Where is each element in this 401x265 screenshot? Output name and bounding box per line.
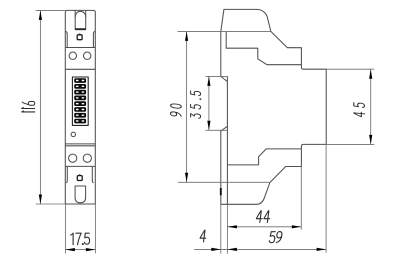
connector block J1 outline xyxy=(72,77,88,125)
arrow 90 bottom xyxy=(185,173,188,183)
dim 35.5 extension bottom xyxy=(205,129,227,131)
front view lower recess walls xyxy=(66,166,94,182)
screw S1 top xyxy=(77,34,82,40)
arrow 35.5 top xyxy=(207,76,210,86)
dim 59 extension right xyxy=(325,144,327,252)
dim 45 line xyxy=(370,69,372,144)
front view divider above bottom recess xyxy=(65,165,95,167)
label 59 xyxy=(269,232,282,243)
dim 116 line xyxy=(39,10,41,204)
arrow 116 top xyxy=(39,10,42,20)
front view upper recess walls xyxy=(65,31,95,47)
side view clip tooth tick xyxy=(220,188,222,195)
terminal hole circle top-left xyxy=(69,52,76,59)
dim 59 line xyxy=(194,248,326,250)
arrow 59 left pointing left xyxy=(227,248,237,251)
dim 17.5 extension left xyxy=(64,204,66,253)
label 4 xyxy=(200,230,207,242)
arrow 90 top xyxy=(185,31,188,41)
label 17.5 xyxy=(71,233,90,245)
dim 116 extension top xyxy=(36,9,66,11)
dim 4 extension left xyxy=(220,204,222,253)
small hole circle mid xyxy=(71,132,75,136)
arrow 17.5 right xyxy=(86,248,96,251)
label 35.5 xyxy=(191,91,201,119)
label 44 xyxy=(256,211,271,223)
arrow 45 bottom xyxy=(369,135,372,145)
arrow 45 top xyxy=(369,69,372,79)
terminal hole circle top-right xyxy=(84,52,91,59)
connector block J1 pin rows xyxy=(74,78,86,123)
dim 90 extension top / body top line xyxy=(178,30,271,32)
dim 90 line xyxy=(186,31,188,182)
side view top jaw face bit xyxy=(226,76,228,81)
front view divider below circles xyxy=(65,68,95,70)
dim 116 extension bottom xyxy=(36,203,66,205)
dim 45 extension bottom xyxy=(326,143,374,145)
side view inner step lines bottom xyxy=(227,149,301,165)
label 90 xyxy=(171,103,182,116)
dim 44 line xyxy=(227,226,301,228)
arrow 17.5 left xyxy=(65,248,75,251)
arrowheads xyxy=(39,10,373,251)
dim 90 extension bottom / clip line xyxy=(178,181,270,183)
dim 44 extension right xyxy=(300,167,302,230)
front view top clip tongue dome xyxy=(75,11,86,17)
arrow 4 outside pointing right xyxy=(211,248,221,251)
dim 35.5 extension top xyxy=(205,75,227,77)
arrow 44 left xyxy=(227,225,237,228)
arrow 59 right pointing right xyxy=(317,248,327,251)
dim 59 extension left / 4 right xyxy=(226,204,228,253)
screw S2 bottom xyxy=(77,174,82,180)
front view upper divider line xyxy=(65,47,95,49)
front view body outline xyxy=(65,10,95,204)
arrow 35.5 bottom xyxy=(207,121,210,131)
side view body rear face behind clip xyxy=(226,126,228,204)
dim 35.5 line xyxy=(208,76,210,130)
dimension graphics xyxy=(36,10,375,253)
front view bottom DIN clip tab xyxy=(75,186,86,203)
front view top slot bottom bar xyxy=(75,28,86,30)
label 45 xyxy=(354,102,365,117)
dim 17.5 line xyxy=(65,249,95,251)
dim 17.5 extension right xyxy=(94,204,96,253)
arrow 116 bottom xyxy=(39,195,42,205)
side view silhouette xyxy=(221,9,326,204)
arrow 44 right xyxy=(292,225,302,228)
terminal hole circle bottom-right xyxy=(83,154,91,162)
front view divider pair xyxy=(65,143,95,145)
side view inner step lines top xyxy=(226,31,301,64)
terminal hole circle bottom-left xyxy=(69,154,77,162)
dim 45 extension top xyxy=(326,68,374,70)
connector block J1 pin slots xyxy=(76,80,84,122)
label 116 xyxy=(22,102,35,112)
front view top DIN clip slot xyxy=(75,10,86,29)
